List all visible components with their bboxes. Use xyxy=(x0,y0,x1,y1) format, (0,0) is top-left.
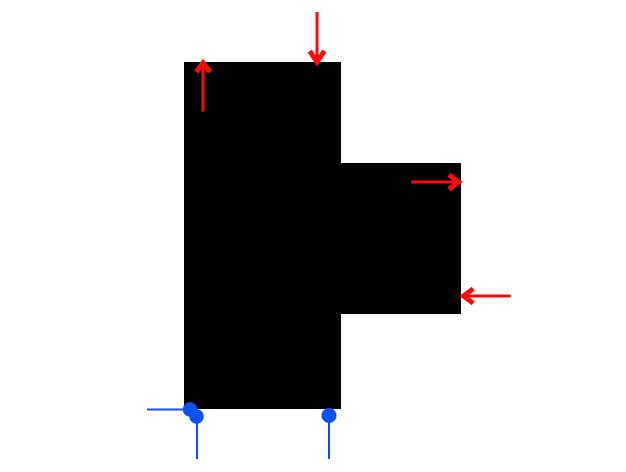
blue pin wire vertical left xyxy=(196,416,198,459)
arrow up (left top outflow) xyxy=(196,63,210,112)
arrow down (top inflow) xyxy=(310,12,325,62)
blue node dot A (corner) xyxy=(183,402,197,416)
arrow right (right side inflow) xyxy=(411,175,459,190)
blue pin wire vertical right xyxy=(328,415,330,459)
blue node dot C (right pin top) xyxy=(322,408,337,423)
blue node dot B (pin top) xyxy=(189,409,203,423)
arrow left (right side inflow lower) xyxy=(463,289,511,304)
black body (T-shaped solid region) xyxy=(184,62,461,409)
blue lead wire horizontal (bottom left) xyxy=(147,409,192,411)
